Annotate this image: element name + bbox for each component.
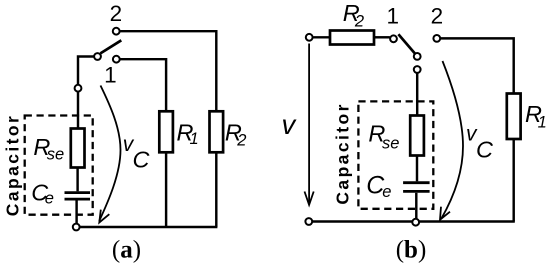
resistor Rse (a)	[71, 129, 85, 168]
label R2 (b)	[343, 0, 364, 30]
svg-text:Capacitor: Capacitor	[333, 104, 353, 204]
svg-text:1: 1	[190, 130, 199, 148]
resistor R1 (a)	[159, 111, 173, 152]
switch pole (b)	[414, 53, 421, 60]
svg-text:v: v	[282, 109, 298, 140]
bottom left terminal (b)	[305, 218, 312, 225]
svg-text:2: 2	[110, 1, 123, 26]
label R1 (a)	[177, 120, 199, 148]
svg-text:1: 1	[387, 3, 400, 28]
label Rse (a)	[33, 134, 64, 164]
bottom junction node (b)	[412, 219, 419, 226]
wire terminal to Rse (a)	[77, 92, 79, 128]
capacitor top terminal (a)	[75, 85, 82, 92]
label Ce (a)	[31, 179, 54, 207]
resistor R1 (b)	[507, 94, 521, 140]
wire R1 to bottom (b)	[512, 139, 514, 222]
voltage arrow vC (a)	[99, 86, 120, 223]
capacitor top terminal (b)	[414, 66, 421, 73]
svg-text:e: e	[45, 190, 54, 208]
capacitor Ce top plate (a)	[65, 191, 91, 194]
wire contact2 to R1 (b)	[440, 38, 513, 93]
resistor R2 (b)	[330, 31, 374, 45]
label R2 (a)	[225, 120, 247, 150]
wire R2 to bottom (a)	[215, 152, 217, 227]
svg-text:se: se	[47, 146, 64, 164]
switch lever (b)	[398, 34, 415, 53]
label Ce (b)	[366, 172, 391, 202]
label vC (a)	[123, 133, 151, 173]
label vC (b)	[466, 122, 494, 162]
wire contact2 to R2 (a)	[120, 31, 216, 111]
voltage arrow v (b)	[305, 44, 314, 205]
svg-text:Capacitor: Capacitor	[3, 116, 23, 216]
svg-text:(a): (a)	[112, 237, 141, 264]
wire terminal to R2 (b)	[313, 36, 330, 38]
switch lever (a)	[100, 40, 121, 53]
switch contact 1 (a)	[113, 56, 120, 63]
bottom wire (b)	[313, 220, 515, 222]
svg-text:2: 2	[431, 3, 444, 28]
wire R2 to contact 1 (b)	[374, 36, 390, 38]
label R1 (b)	[525, 101, 547, 131]
svg-text:2: 2	[354, 12, 364, 30]
svg-text:C: C	[476, 137, 494, 163]
svg-text:e: e	[382, 183, 391, 201]
wire common to capacitor terminal (a)	[78, 57, 94, 85]
wire Ce to bottom terminal (a)	[75, 201, 77, 224]
wire terminal to Rse (b)	[416, 73, 418, 115]
wire Rse to Ce (b)	[416, 156, 418, 182]
svg-text:(b): (b)	[396, 237, 427, 264]
wire Rse to Ce (a)	[76, 168, 78, 192]
svg-text:C: C	[133, 147, 151, 173]
capacitor Ce top plate (b)	[403, 181, 430, 184]
capacitor Ce bottom plate (a)	[65, 198, 91, 201]
bottom wire (a)	[80, 226, 217, 228]
switch contact 2 (a)	[113, 28, 120, 35]
left terminal top (b)	[306, 34, 313, 41]
voltage arrow vC (b)	[440, 61, 463, 220]
svg-text:2: 2	[236, 131, 246, 149]
svg-text:1: 1	[538, 113, 547, 131]
switch contact 1 (b)	[390, 35, 397, 42]
dashed capacitor box (a)	[25, 116, 93, 215]
label Rse (b)	[368, 121, 399, 153]
wire contact1 to R1 (a)	[120, 59, 166, 111]
wire Ce to bottom junction (b)	[415, 193, 417, 219]
wire R1 to bottom (a)	[165, 152, 167, 227]
switch contact 2 (b)	[433, 35, 440, 42]
resistor Rse (b)	[410, 116, 424, 156]
svg-text:se: se	[382, 135, 399, 153]
resistor R2 (a)	[210, 111, 224, 152]
svg-text:1: 1	[104, 62, 117, 87]
switch common pole (a)	[94, 53, 101, 60]
dashed capacitor box (b)	[358, 101, 433, 208]
bottom terminal (a)	[73, 224, 80, 231]
capacitor Ce bottom plate (b)	[403, 190, 430, 193]
